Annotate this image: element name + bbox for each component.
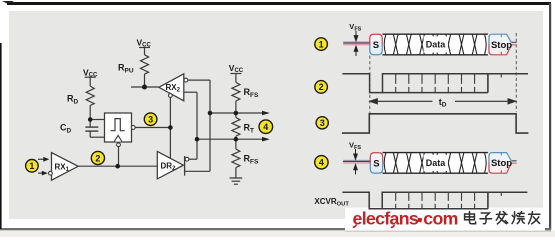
svg-text:Stop: Stop bbox=[491, 40, 512, 51]
svg-text:Data: Data bbox=[426, 40, 447, 50]
svg-text:4: 4 bbox=[263, 122, 268, 132]
svg-text:2: 2 bbox=[319, 82, 324, 92]
svg-text:com: com bbox=[423, 209, 457, 229]
svg-text:1: 1 bbox=[319, 39, 324, 49]
svg-text:S: S bbox=[373, 40, 379, 51]
svg-text:4: 4 bbox=[319, 158, 324, 168]
svg-text:S: S bbox=[373, 158, 379, 169]
svg-text:Data: Data bbox=[426, 158, 447, 168]
svg-text:2: 2 bbox=[95, 153, 100, 163]
svg-text:3: 3 bbox=[320, 118, 325, 128]
svg-text:1: 1 bbox=[29, 161, 34, 171]
svg-text:elecfans: elecfans bbox=[353, 209, 419, 229]
svg-text:3: 3 bbox=[148, 115, 153, 125]
svg-text:Stop: Stop bbox=[491, 158, 512, 169]
